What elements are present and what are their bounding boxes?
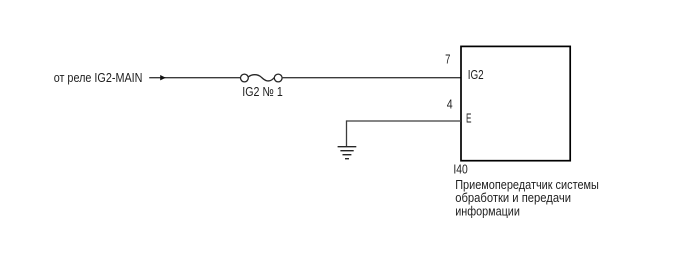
fuse IG2 № 1	[241, 74, 283, 82]
svg-text:I40: I40	[453, 162, 467, 177]
wire: relay feed to fuse IG2 № 1	[149, 77, 240, 79]
signal direction arrowhead	[160, 75, 166, 80]
svg-text:E: E	[466, 110, 472, 125]
wire: I40 pin 4 (E) to ground, horizontal run	[347, 120, 462, 122]
wire: ground drop, vertical run	[346, 120, 348, 146]
ground	[338, 147, 357, 159]
ECU box I40 (transceiver)	[461, 46, 570, 160]
wire: fuse to I40 pin 7	[282, 77, 461, 79]
svg-text:IG2: IG2	[468, 67, 484, 82]
svg-text:4: 4	[447, 96, 453, 111]
svg-text:информации: информации	[455, 203, 520, 218]
svg-text:IG2 № 1: IG2 № 1	[242, 84, 282, 99]
svg-text:7: 7	[445, 52, 450, 67]
svg-text:от реле IG2-MAIN: от реле IG2-MAIN	[54, 70, 143, 85]
